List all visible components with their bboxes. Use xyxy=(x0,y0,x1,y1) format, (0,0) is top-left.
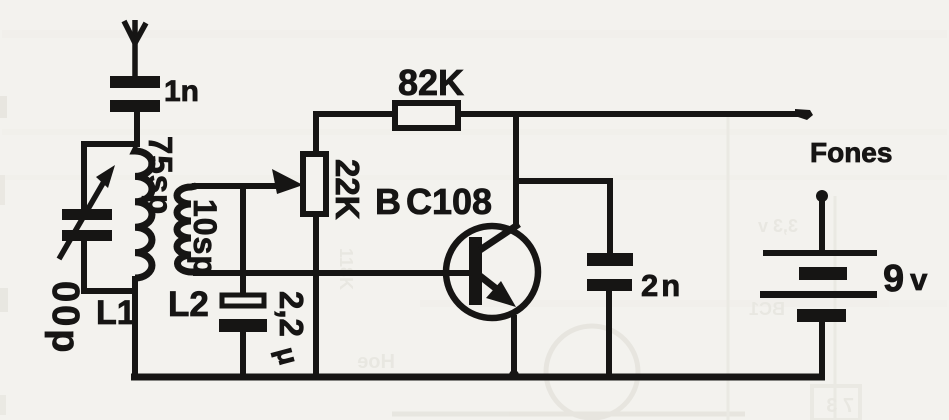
phones terminal blob xyxy=(795,109,813,120)
wire capacitor 2,2u to ground rail xyxy=(240,331,246,378)
junction dot emitter-ground xyxy=(509,370,519,380)
battery B1 9v xyxy=(760,250,877,322)
potentiometer 22K body xyxy=(303,154,326,214)
svg-text:BC1: BC1 xyxy=(749,299,785,319)
wire antenna cap to tank junction xyxy=(134,112,140,147)
wire battery to ground rail xyxy=(819,322,825,378)
wiper arrowhead xyxy=(272,169,303,194)
ground rail xyxy=(131,374,825,381)
svg-text:2,2: 2,2 xyxy=(273,291,310,337)
svg-text:1n: 1n xyxy=(164,75,199,108)
svg-text:75sp: 75sp xyxy=(142,136,179,215)
wire 22K bottom to ground rail xyxy=(313,214,319,378)
svg-text:82K: 82K xyxy=(398,62,464,103)
wire L1 bottom to ground rail xyxy=(132,276,138,378)
capacitor C3 2n xyxy=(587,253,633,291)
wire 22K top to supply rail xyxy=(316,114,395,154)
svg-text:22K: 22K xyxy=(329,159,366,220)
svg-text:BC108: BC108 xyxy=(375,181,492,222)
capacitor C2 2,2u xyxy=(219,295,267,332)
variable capacitor CV xyxy=(59,165,115,259)
wire supply rail down to collector xyxy=(513,114,519,228)
svg-text:2n: 2n xyxy=(641,268,683,303)
wire 82K to phones terminal xyxy=(458,111,800,117)
inductor L2 xyxy=(177,186,196,272)
wire phones dot to battery xyxy=(819,196,825,252)
svg-text:7 3: 7 3 xyxy=(826,395,854,417)
wire L2 bottom to transistor base xyxy=(193,270,470,276)
capacitor C1 1n xyxy=(110,76,160,112)
inductor L1 xyxy=(135,147,152,278)
phones jack dot xyxy=(816,190,828,202)
svg-text:L1: L1 xyxy=(96,294,136,332)
wire emitter to ground rail xyxy=(511,315,517,378)
svg-text:10sp: 10sp xyxy=(187,199,223,276)
resistor R1 82K body xyxy=(395,103,458,128)
wire L2 top tap down to capacitor 2,2u xyxy=(240,186,246,296)
wire collector node to capacitor 2n xyxy=(516,181,610,254)
wire 2n to ground rail xyxy=(606,291,612,378)
svg-text:3,3 v: 3,3 v xyxy=(758,216,798,236)
svg-text:00p: 00p xyxy=(44,281,86,355)
wire variable capacitor bottom to L1 bottom xyxy=(84,241,134,291)
antenna xyxy=(124,20,146,77)
svg-text:L2: L2 xyxy=(168,285,209,324)
transistor Q1 BC108 xyxy=(446,224,538,318)
svg-text:Fones: Fones xyxy=(810,137,892,168)
svg-text:118K: 118K xyxy=(336,248,356,290)
svg-text:Hoe: Hoe xyxy=(357,351,395,373)
wire L2 top to potentiometer wiper xyxy=(192,183,276,189)
wire junction to variable capacitor top xyxy=(84,144,137,209)
